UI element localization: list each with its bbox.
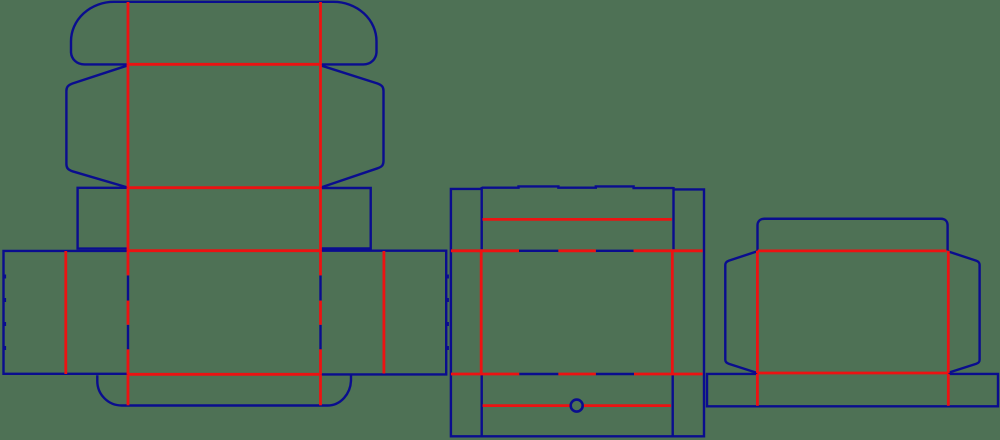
- crease: lid fold vertical left: [127, 2, 130, 64]
- cut: outer outline: [451, 189, 704, 436]
- crease: dust row vertical left: [127, 64, 130, 188]
- cut: perforation ticks right edge: [447, 275, 449, 351]
- cut: left dust flap: [725, 251, 757, 373]
- crease: main row bottom fold: [128, 373, 321, 376]
- crease: row2 vertical left: [127, 188, 130, 251]
- cut: main row outline left part: [4, 251, 129, 374]
- crease: dust row vertical right: [319, 64, 322, 188]
- crease: bottom tuck fold y=405.6: [483, 404, 671, 407]
- cut-dash: top crease dashes y=250.8: [519, 250, 634, 252]
- crease: top panel fold y=219.4: [483, 218, 672, 221]
- crease: body vertical right: [947, 251, 950, 373]
- cut: bottom flap outline: [97, 375, 351, 405]
- cut-dash: right vertical x=320.5 segment 1: [319, 275, 321, 300]
- crease: inner vertical left: [480, 251, 483, 374]
- crease: bottom flap vertical left: [127, 374, 130, 405]
- cut: left dust flap: [66, 65, 128, 187]
- crease-dash: x=128 main row segments: [127, 251, 130, 374]
- cut: inner vertical left lower: [481, 375, 483, 436]
- cut: row2 left flap: [78, 188, 128, 249]
- cut: row2 right flap: [321, 188, 371, 249]
- crease: main row right panel fold: [382, 251, 385, 374]
- crease: y=374 segments: [451, 373, 703, 376]
- cut: right dust flap: [321, 65, 384, 187]
- cut: perforation ticks left edge: [4, 275, 6, 351]
- crease: y=250.8 segments: [451, 249, 703, 252]
- cut: main row outline right part: [321, 251, 447, 375]
- crease: lid fold vertical right: [319, 2, 322, 64]
- cut-dash: right vertical x=320.5 segment 2: [319, 325, 321, 350]
- crease: row2 top fold: [128, 186, 321, 189]
- cut: inner vertical right upper: [672, 187, 674, 249]
- crease: strip vertical left: [756, 374, 759, 406]
- cut: right dust flap: [948, 251, 980, 373]
- cut: inner vertical right lower: [672, 375, 674, 436]
- crease-dash: x=320.5 main row segments: [319, 251, 322, 374]
- crease: main row left panel fold: [64, 251, 67, 374]
- crease: tuck fold y=250.9: [758, 249, 947, 252]
- cut: tuck flap rounded top: [758, 219, 948, 251]
- crease: main row top fold: [128, 249, 321, 252]
- cut-dash: left vertical x=128 segment 1: [127, 275, 129, 300]
- crease: bottom flap vertical right: [319, 374, 322, 405]
- cut: bottom strip outline: [707, 374, 998, 406]
- cut: inner vertical left upper: [481, 187, 483, 249]
- cut-dash: bottom crease dashes y=374: [519, 373, 634, 375]
- crease: body vertical left: [756, 251, 759, 373]
- cut: thumb hole circle: [571, 400, 583, 412]
- crease: strip vertical right: [947, 374, 950, 406]
- crease: body bottom fold y=373: [757, 372, 948, 375]
- cut-dash: left vertical x=128 segment 2: [127, 325, 129, 350]
- cut: top zig edge: [482, 186, 674, 188]
- crease: row2 vertical right: [319, 188, 322, 251]
- crease: inner vertical right: [671, 251, 674, 374]
- cut: lid top outline with ears: [71, 2, 377, 65]
- crease: lid bottom fold: [128, 63, 321, 66]
